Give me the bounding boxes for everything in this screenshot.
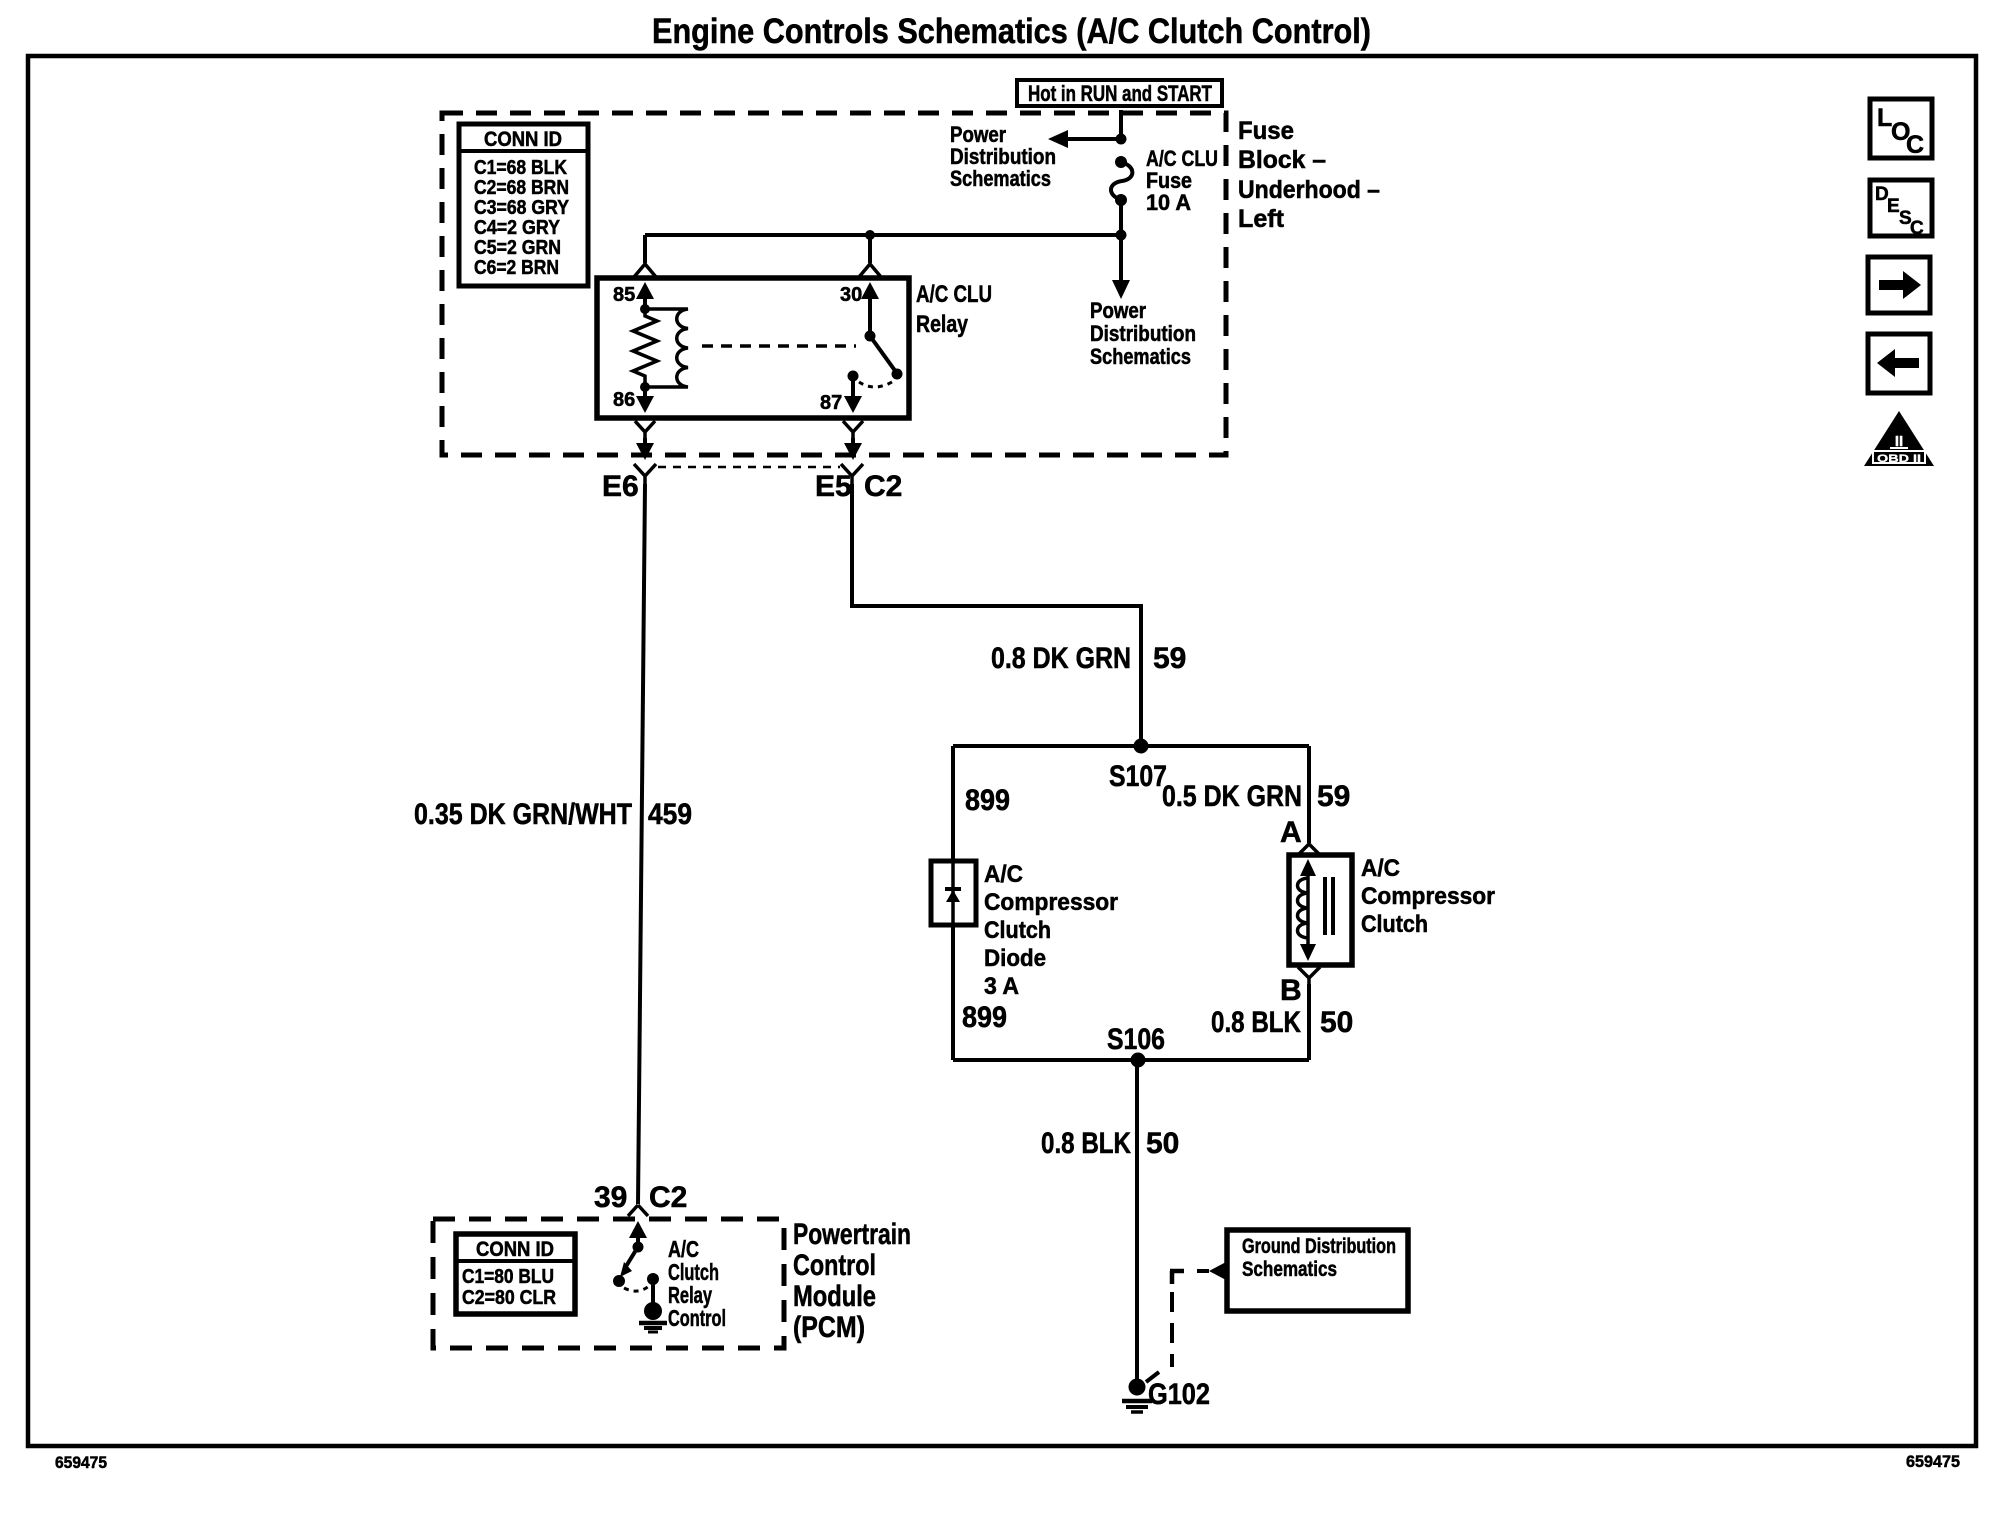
svg-text:B: B [1280,974,1302,1007]
relay pin 87 [820,371,862,415]
svg-text:659475: 659475 [1906,1452,1960,1471]
svg-text:50: 50 [1320,1006,1353,1039]
svg-text:C3=68 GRY: C3=68 GRY [474,197,570,219]
svg-text:C2=68 BRN: C2=68 BRN [474,177,569,199]
label: 0.35 DK GRN/WHT 459 [414,798,692,831]
ground distribution schematics box [1227,1230,1408,1311]
LOC icon [1870,99,1932,159]
wire 899 upper (S107 to diode) [951,746,955,861]
wire 0.8 BLK 50 (B to S106 bus) [1307,984,1311,1060]
svg-text:S107: S107 [1109,760,1167,793]
next (right arrow) icon [1868,257,1930,313]
wire: stub bus to relay pin 30 [868,235,872,263]
svg-text:A/C: A/C [984,861,1023,888]
wire 899 lower (diode to S106 bus) [951,925,955,1060]
svg-text:(PCM): (PCM) [793,1311,865,1344]
label: A/C Clutch Relay Control [668,1236,726,1331]
diode D: A/C compressor clutch diode box [931,861,976,925]
svg-text:Underhood –: Underhood – [1238,176,1380,204]
connector E6 [602,464,656,503]
power distribution reference arrow (left) [1048,130,1121,148]
svg-text:899: 899 [965,784,1010,817]
svg-text:Compressor: Compressor [1361,883,1495,910]
svg-text:Control: Control [793,1249,876,1282]
svg-text:39: 39 [594,1181,627,1214]
svg-text:Clutch: Clutch [984,917,1051,944]
node: junction bus / relay pin 30 branch [865,230,875,240]
svg-text:Relay: Relay [916,311,969,338]
connector chevron above pin 85 [634,264,656,277]
wire 0.8 BLK 50 (S106 to G102) [1135,1060,1139,1380]
label: Power Distribution Schematics (upper) [950,122,1056,191]
relay actuator dashed link [702,344,856,348]
svg-text:Control: Control [668,1305,726,1331]
ground G102 [1122,1378,1210,1412]
svg-text:Powertrain: Powertrain [793,1218,911,1251]
label: A/C CLU Fuse 10 A [1146,146,1218,215]
svg-text:Clutch: Clutch [1361,911,1428,938]
PCM dashed box [433,1219,784,1348]
OBD II icon [1864,411,1934,466]
svg-text:Module: Module [793,1280,876,1313]
wire 0.5 DK GRN 59 (S107 to clutch A) [1307,746,1311,843]
svg-text:OBD II: OBD II [1877,453,1921,465]
label: 0.8 BLK 50 (lower) [1041,1127,1179,1160]
relay pin 30 switch common [840,282,879,342]
pin B of clutch [1280,967,1320,1007]
svg-text:Ground Distribution: Ground Distribution [1242,1235,1396,1258]
wire: stub bus to relay pin 85 [643,235,647,263]
svg-text:C2: C2 [649,1181,687,1214]
svg-text:0.8 BLK: 0.8 BLK [1041,1127,1131,1160]
hot in RUN and START box [1017,80,1222,106]
splice S106 [1107,1023,1165,1068]
svg-text:C2=80 CLR: C2=80 CLR [462,1287,556,1309]
svg-text:Schematics: Schematics [1242,1258,1337,1281]
CONN ID table (PCM) [456,1234,575,1314]
svg-text:85: 85 [613,284,635,306]
DESC icon [1870,180,1932,239]
svg-text:L: L [1877,104,1892,132]
relay pin 85 [613,282,654,314]
svg-text:Block –: Block – [1238,146,1326,174]
node: coil bottom junction [640,382,650,392]
power distribution down arrow [1112,235,1130,299]
label: 0.8 BLK 50 (right) [1211,1006,1353,1039]
svg-text:Compressor: Compressor [984,889,1118,916]
svg-text:3 A: 3 A [984,973,1019,1000]
svg-text:0.8 DK GRN: 0.8 DK GRN [991,642,1131,675]
label: Power Distribution Schematics (lower) [1090,298,1196,369]
connector E5 / C2 [815,464,902,503]
node: junction at fuse top feed [1116,134,1127,145]
wire: bottom bus into S106 [953,1058,1309,1062]
svg-text:Diode: Diode [984,945,1046,972]
wire: feed stub from hot bus into fuse [1119,110,1123,139]
svg-text:0.8 BLK: 0.8 BLK [1211,1006,1301,1039]
svg-text:C5=2 GRN: C5=2 GRN [474,237,561,259]
svg-text:459: 459 [648,798,692,831]
pin A of clutch [1280,816,1320,855]
svg-text:86: 86 [613,389,635,411]
svg-text:10 A: 10 A [1146,190,1191,215]
svg-text:C6=2 BRN: C6=2 BRN [474,257,559,279]
CONN ID table (fuse block) [459,124,588,286]
svg-text:S106: S106 [1107,1023,1165,1056]
resistor (coil suppression) [633,309,657,387]
relay U: A/C CLU Relay box [597,278,909,418]
svg-text:50: 50 [1146,1127,1179,1160]
splice S107 [1109,739,1167,794]
connector C2 boundary fine dashes [658,466,840,469]
svg-text:Schematics: Schematics [950,166,1051,191]
svg-text:0.35 DK GRN/WHT: 0.35 DK GRN/WHT [414,798,632,831]
svg-text:59: 59 [1153,642,1186,675]
svg-text:C1=68 BLK: C1=68 BLK [474,157,567,179]
wire 0.35 DK GRN/WHT 459 (E6 to PCM) [638,484,645,1204]
fuse block underhood dashed box [442,113,1226,455]
relay coil [645,309,688,387]
PCM pin 39 C2 [594,1181,687,1216]
svg-text:C1=80 BLU: C1=80 BLU [462,1266,554,1288]
relay switch arm [859,336,903,387]
svg-text:A/C CLU: A/C CLU [916,281,992,308]
svg-text:C: C [1910,218,1924,239]
label: 0.5 DK GRN 59 [1162,780,1350,813]
svg-text:CONN ID: CONN ID [476,1238,554,1261]
svg-text:0.5 DK GRN: 0.5 DK GRN [1162,780,1302,813]
svg-text:Distribution: Distribution [1090,321,1196,346]
svg-text:C4=2 GRY: C4=2 GRY [474,217,561,239]
node: junction bus / fuse output [1116,230,1127,241]
svg-text:659475: 659475 [55,1453,107,1472]
svg-text:Schematics: Schematics [1090,344,1191,369]
connector below pin 86 [635,421,655,460]
PCM driver switch (A/C clutch relay control) [613,1221,649,1291]
label: A/C Compressor Clutch Diode 3 A [984,861,1118,1000]
svg-text:C2: C2 [864,470,902,503]
PCM internal ground [639,1273,667,1332]
wire: S107 horizontal bus [953,744,1309,748]
back (left arrow) icon [1868,334,1930,393]
svg-text:C: C [1906,131,1924,159]
svg-text:E5: E5 [815,470,852,503]
label: A/C Compressor Clutch [1361,855,1495,938]
svg-text:Hot in RUN and START: Hot in RUN and START [1028,81,1212,106]
ground distribution reference dashed line [1146,1262,1226,1382]
connector chevron above pin 30 [859,264,881,277]
wire 0.8 DK GRN 59 (E5 to S107) [852,484,1141,742]
svg-text:Left: Left [1238,205,1285,233]
svg-text:Fuse: Fuse [1238,117,1294,145]
svg-text:E: E [1887,196,1900,217]
svg-text:Power: Power [1090,298,1146,323]
svg-text:Engine Controls Schematics (A/: Engine Controls Schematics (A/C Clutch C… [652,12,1371,51]
svg-text:59: 59 [1317,780,1350,813]
svg-text:G102: G102 [1148,1378,1210,1411]
label: Fuse Block - Underhood - Left [1238,117,1380,233]
relay pin 86 [613,387,654,413]
svg-text:87: 87 [820,392,842,414]
svg-text:A/C: A/C [1361,855,1400,882]
A/C compressor clutch coil box [1289,855,1352,965]
wire: horizontal feed bus to relay [645,233,1121,237]
fuse A/C CLU 10 A [1111,156,1132,235]
svg-text:CONN ID: CONN ID [484,128,562,151]
svg-text:30: 30 [840,284,862,306]
svg-text:899: 899 [962,1001,1007,1034]
svg-text:E6: E6 [602,470,639,503]
label: Powertrain Control Module (PCM) [793,1218,911,1344]
label: A/C CLU Relay [916,281,992,338]
svg-text:A: A [1280,816,1302,849]
label: 0.8 DK GRN 59 [991,642,1186,675]
connector below pin 87 [843,421,863,460]
